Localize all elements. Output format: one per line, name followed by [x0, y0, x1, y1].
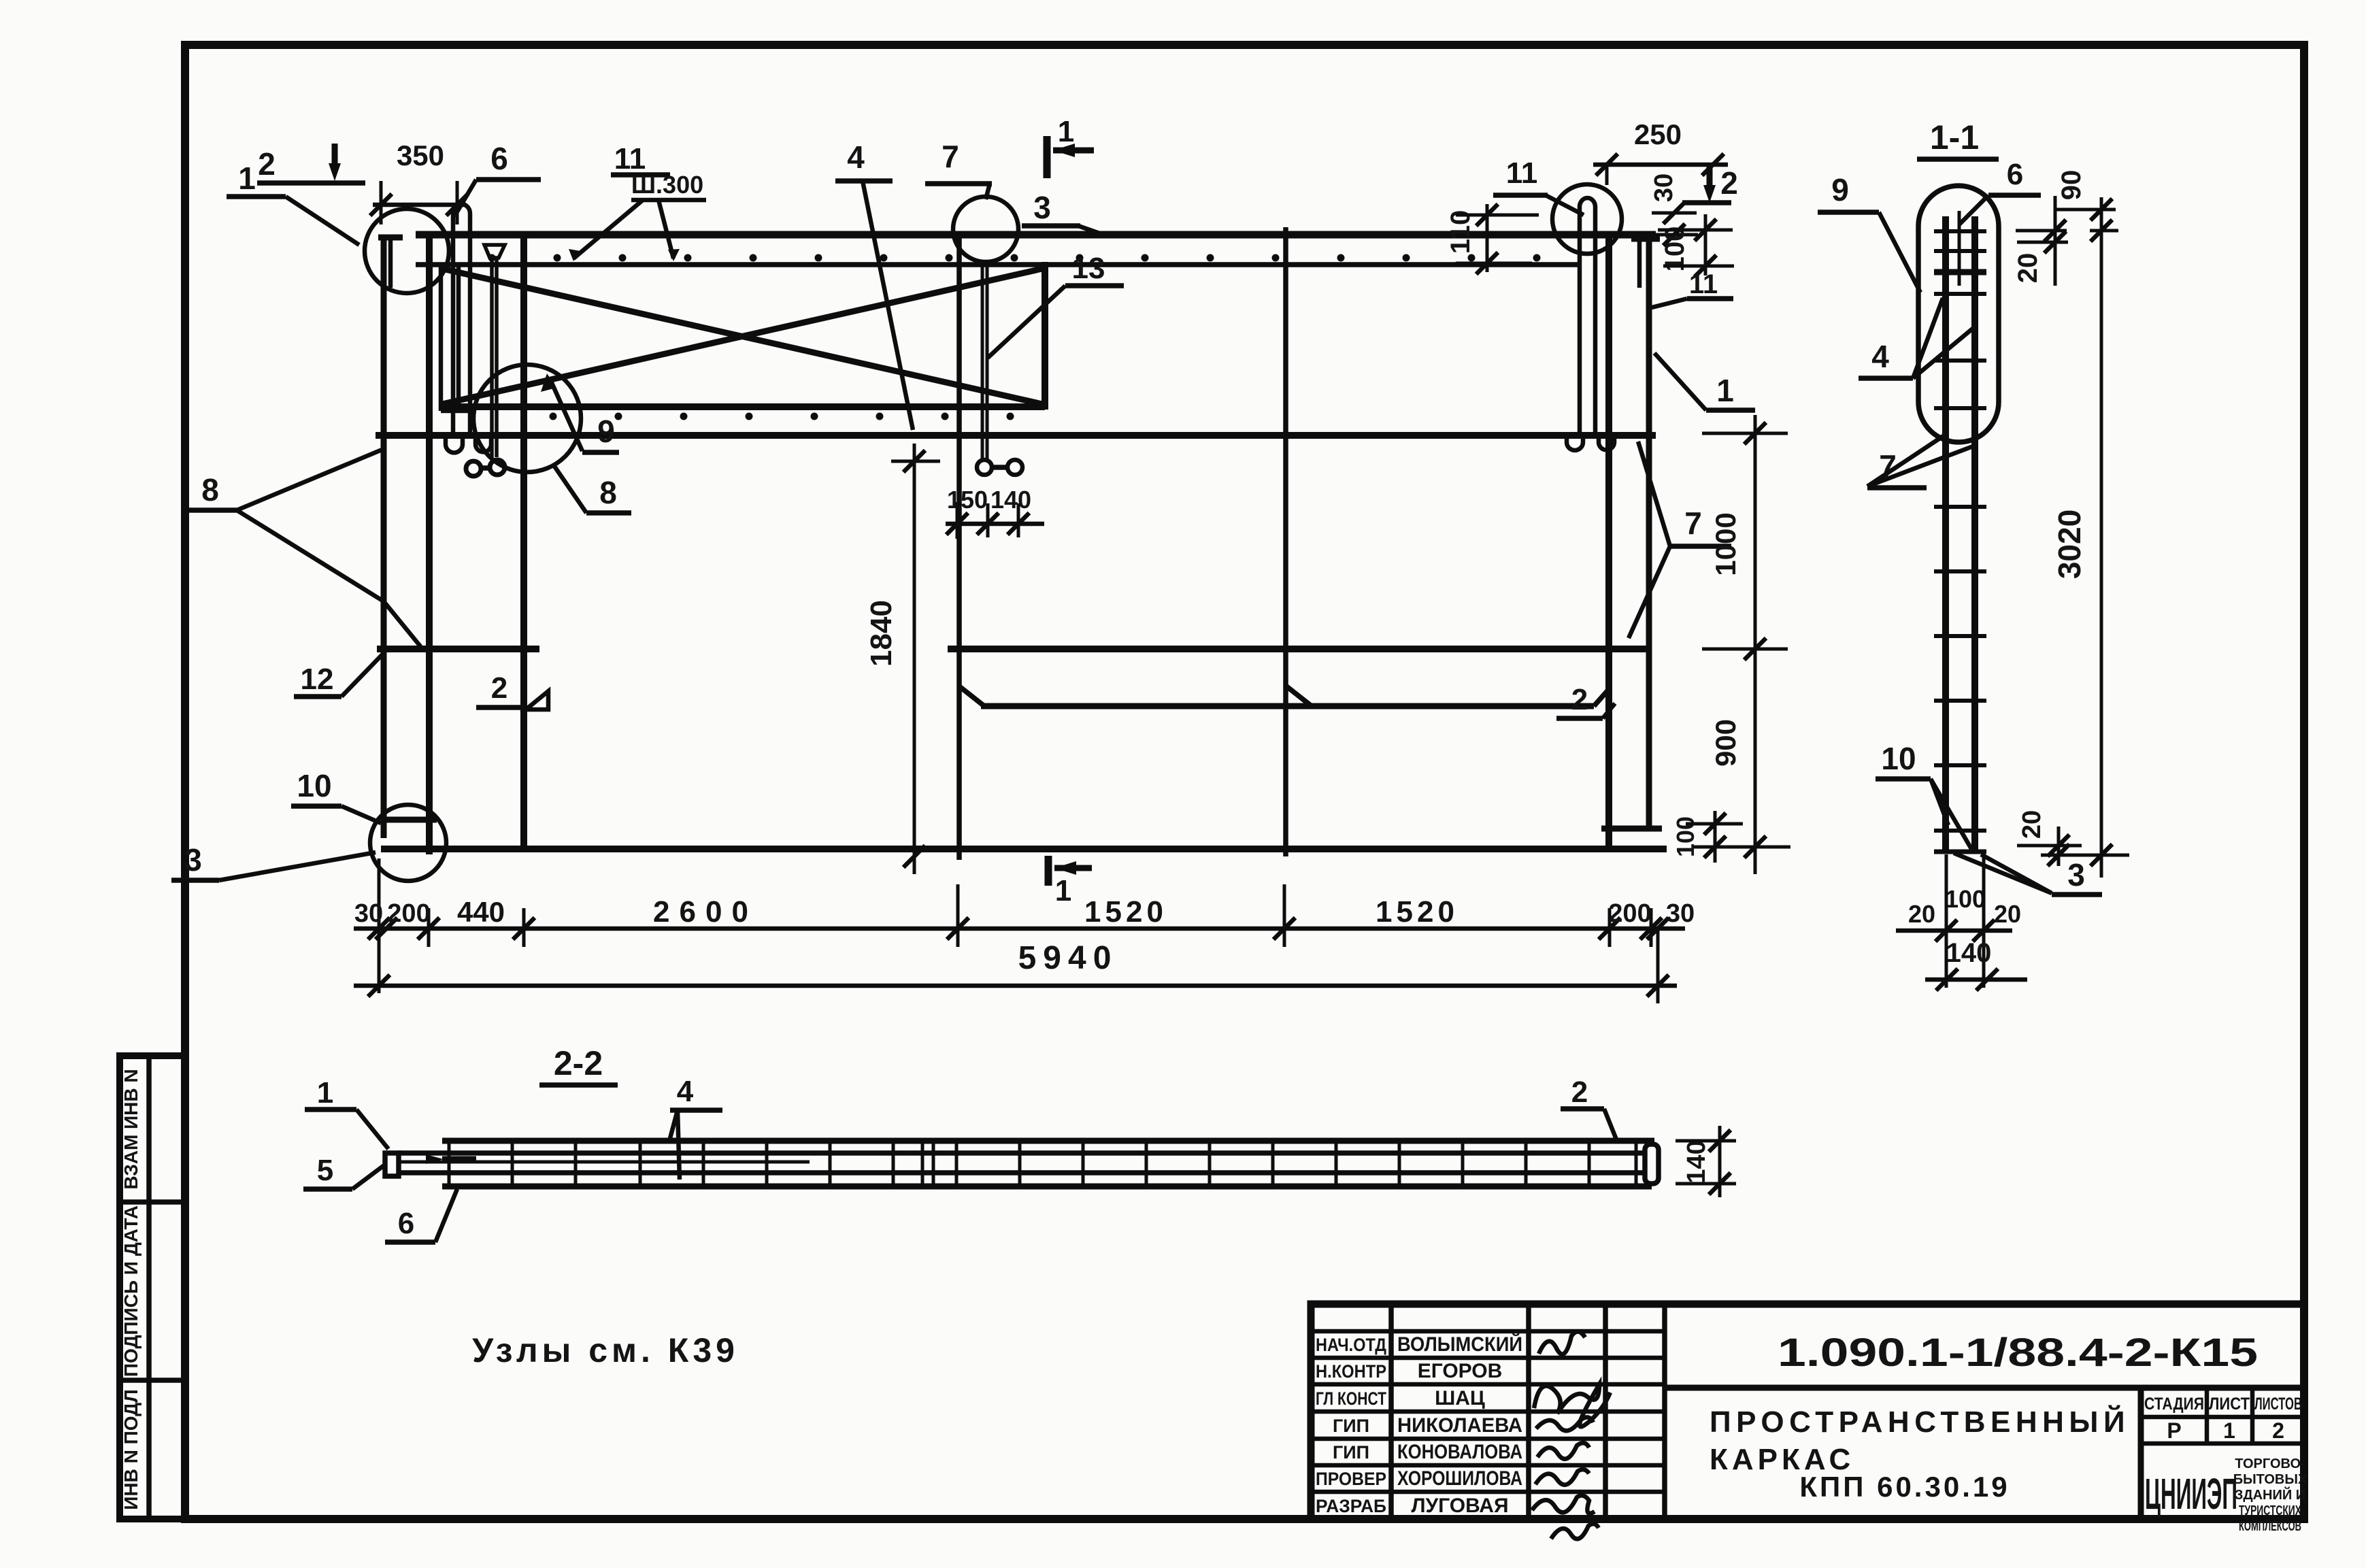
svg-text:1: 1: [317, 1076, 333, 1110]
svg-text:1520: 1520: [1376, 895, 1459, 929]
dimension row 5940: [354, 940, 1677, 997]
section mark 2 (right): [1682, 164, 1738, 203]
svg-text:ГИП: ГИП: [1333, 1416, 1369, 1436]
svg-text:Р: Р: [2167, 1418, 2181, 1443]
svg-text:3: 3: [1033, 190, 1051, 225]
svg-text:7: 7: [1684, 505, 1702, 541]
svg-text:НИКОЛАЕВА: НИКОЛАЕВА: [1397, 1414, 1522, 1437]
dimension row 30/200/440/2600/1520/1520/200/30: [354, 858, 1695, 1003]
label 6 (2-2): [385, 1189, 457, 1242]
svg-text:4: 4: [1871, 339, 1889, 374]
svg-text:ЦНИИЭП: ЦНИИЭП: [2145, 1469, 2237, 1518]
svg-text:90: 90: [2056, 170, 2086, 201]
svg-text:20: 20: [1908, 900, 1935, 928]
svg-text:БЫТОВЫХ: БЫТОВЫХ: [2233, 1472, 2307, 1487]
svg-text:1520: 1520: [1084, 895, 1167, 929]
label 2 (right bar2): [1556, 683, 1615, 718]
signatures: [1532, 1331, 1610, 1539]
dim 250: [1593, 118, 1728, 185]
svg-text:РАЗРАБ: РАЗРАБ: [1316, 1496, 1386, 1516]
svg-text:2600: 2600: [653, 895, 758, 929]
svg-text:3: 3: [2067, 857, 2085, 893]
svg-text:2: 2: [1720, 165, 1738, 201]
label 11 (right): [1493, 156, 1584, 215]
svg-text:ШАЦ: ШАЦ: [1435, 1387, 1485, 1409]
label 12: [294, 652, 385, 697]
label 9 (section): [1818, 172, 1920, 293]
svg-text:4: 4: [847, 139, 865, 175]
label 3 (section): [1954, 853, 2102, 895]
svg-text:1.090.1-1/88.4-2-К15: 1.090.1-1/88.4-2-К15: [1778, 1331, 2258, 1375]
capsule outline 9: [1918, 186, 1999, 442]
left column line 2: [520, 235, 527, 849]
svg-text:ГИП: ГИП: [1333, 1442, 1369, 1463]
label 1 (right post): [1654, 353, 1755, 410]
stage/sheet boxes: [2144, 1395, 2302, 1443]
label 3 (bottom left): [171, 842, 376, 880]
left column line (440 flange): [426, 235, 433, 854]
svg-text:140: 140: [1682, 1140, 1711, 1183]
svg-text:6: 6: [2007, 158, 2023, 191]
stirrup rungs 7/10: [1934, 231, 1986, 852]
svg-text:20: 20: [2013, 253, 2043, 284]
svg-text:ТУРИСТСКИХ: ТУРИСТСКИХ: [2239, 1503, 2301, 1518]
svg-text:4: 4: [677, 1075, 694, 1108]
svg-text:9: 9: [597, 414, 615, 449]
label 3 (top): [1022, 190, 1103, 235]
svg-text:150: 150: [947, 486, 988, 514]
label 7 (right): [1629, 441, 1731, 638]
svg-text:Ш.300: Ш.300: [631, 171, 703, 199]
svg-text:1840: 1840: [865, 600, 898, 667]
svg-text:100: 100: [1945, 885, 1986, 913]
svg-text:КОНОВАЛОВА: КОНОВАЛОВА: [1397, 1441, 1522, 1463]
dim 100 (right): [1658, 214, 1734, 277]
dim 20 (bottom): [2017, 810, 2082, 866]
detail circle node B (9/8): [473, 365, 581, 472]
svg-text:8: 8: [201, 472, 219, 507]
hairpin enclosure plate: [441, 266, 476, 411]
label 8 (left): [189, 449, 423, 650]
dims 20/100/20: [1896, 854, 2021, 988]
label 5 (2-2): [303, 1154, 385, 1189]
hairpin 11 (right loop): [1567, 198, 1614, 450]
dim 140 (2-2): [1676, 1126, 1736, 1197]
dim 140 (section): [1925, 938, 2027, 990]
svg-text:ЗДАНИЙ И: ЗДАНИЙ И: [2235, 1486, 2305, 1503]
svg-text:ХОРОШИЛОВА: ХОРОШИЛОВА: [1397, 1467, 1522, 1490]
rail at mid (full width): [376, 432, 1656, 439]
title block texts: [1316, 1333, 1522, 1517]
label 6 (top): [454, 141, 541, 216]
svg-text:1000: 1000: [1710, 512, 1742, 576]
svg-text:ГЛ КОНСТ: ГЛ КОНСТ: [1316, 1388, 1386, 1409]
svg-text:ИНВ N ПОДЛ: ИНВ N ПОДЛ: [120, 1389, 141, 1509]
svg-text:2: 2: [2272, 1418, 2284, 1443]
right column inner line: [1605, 235, 1612, 849]
svg-text:30: 30: [1650, 173, 1678, 202]
svg-text:10: 10: [1881, 741, 1916, 776]
anchor rod 8 with eyes: [466, 245, 505, 476]
label 4 (2-2): [669, 1075, 722, 1180]
svg-text:КОМПЛЕКСОВ: КОМПЛЕКСОВ: [2239, 1519, 2301, 1534]
svg-text:20: 20: [1994, 900, 2021, 928]
mesh line under top chord: [416, 262, 1578, 267]
section mark 1 (top): [1047, 115, 1094, 178]
dim 150 140: [946, 486, 1044, 539]
svg-text:1: 1: [2223, 1418, 2235, 1443]
svg-text:СТАДИЯ: СТАДИЯ: [2144, 1395, 2204, 1414]
svg-text:5940: 5940: [1018, 940, 1118, 976]
svg-text:13: 13: [1072, 252, 1105, 285]
bar 2 with cranked ends: [959, 686, 1610, 706]
svg-text:250: 250: [1634, 118, 1682, 150]
beam bottom chord: [439, 403, 1045, 410]
svg-text:ТОРГОВО-: ТОРГОВО-: [2235, 1456, 2305, 1471]
svg-text:140: 140: [990, 486, 1031, 514]
label 7 (top mid): [925, 139, 992, 199]
svg-text:3020: 3020: [2052, 510, 2087, 579]
svg-text:ВЗАМ ИНВ N: ВЗАМ ИНВ N: [120, 1069, 141, 1189]
studs on bottom chord: [550, 413, 1014, 420]
svg-text:ВОЛЫМСКИЙ: ВОЛЫМСКИЙ: [1397, 1333, 1522, 1356]
studs on top chord (Ш.300): [488, 254, 1541, 262]
hanger rod 13 with eye bar: [977, 265, 1022, 475]
svg-text:350: 350: [397, 139, 444, 171]
bottom chord line: [381, 846, 1667, 852]
label 4 (top): [835, 139, 913, 430]
svg-text:1: 1: [1055, 874, 1071, 907]
label 8 (mid): [554, 465, 631, 513]
label 7 (section): [1867, 435, 1975, 488]
label 2 (2-2): [1561, 1075, 1618, 1143]
dim 100 (bottom right): [1671, 811, 1743, 863]
middle post 2: [1283, 227, 1288, 856]
svg-text:12: 12: [301, 663, 334, 696]
svg-text:200: 200: [1608, 899, 1651, 928]
svg-text:2: 2: [1571, 683, 1588, 716]
svg-text:11: 11: [1506, 156, 1538, 190]
label 4 (section): [1859, 298, 1973, 378]
label 1 (top left): [227, 161, 359, 245]
detail circle node A (top left): [365, 209, 449, 293]
dim 1000/900: [1694, 415, 1790, 874]
label 9 (mid): [541, 373, 619, 452]
section title 2-2: [539, 1044, 618, 1085]
diagonal brace 4 (down-right): [442, 269, 1042, 404]
svg-text:КПП 60.30.19: КПП 60.30.19: [1799, 1471, 2010, 1503]
svg-text:ЛУГОВАЯ: ЛУГОВАЯ: [1411, 1495, 1508, 1517]
dim 20 (top): [2013, 196, 2068, 286]
svg-text:7: 7: [942, 139, 959, 174]
svg-text:ЛИСТ: ЛИСТ: [2209, 1395, 2250, 1414]
dim 350: [370, 139, 468, 224]
long bar assembly 2-2: [385, 1141, 1659, 1186]
right outer post 1: [1601, 239, 1662, 829]
label 6 (section): [1959, 158, 2041, 224]
detail circle node C (bottom left): [370, 805, 446, 881]
svg-text:30: 30: [354, 899, 383, 928]
svg-text:1: 1: [1058, 115, 1074, 148]
hairpin 6 (long loop): [446, 204, 491, 453]
svg-text:ПРОСТРАНСТВЕННЫЙ: ПРОСТРАНСТВЕННЫЙ: [1710, 1404, 2130, 1439]
svg-text:2: 2: [491, 671, 507, 705]
svg-text:1: 1: [238, 161, 256, 196]
svg-text:1: 1: [1716, 373, 1734, 408]
svg-text:6: 6: [490, 141, 508, 176]
svg-text:30: 30: [1666, 899, 1695, 928]
label 11 with flag Ш.300: [569, 142, 706, 261]
svg-text:20: 20: [2018, 810, 2046, 839]
svg-text:5: 5: [317, 1154, 333, 1187]
dim 3020: [2041, 197, 2129, 878]
svg-text:ПОДПИСЬ И ДАТА: ПОДПИСЬ И ДАТА: [120, 1205, 141, 1377]
doc title: [1710, 1404, 2130, 1503]
label 10 (section): [1876, 741, 1971, 849]
svg-text:ПРОВЕР: ПРОВЕР: [1316, 1469, 1386, 1489]
svg-text:440: 440: [457, 896, 505, 928]
svg-text:8: 8: [599, 475, 617, 510]
dim 1840: [865, 444, 940, 874]
svg-text:6: 6: [398, 1207, 414, 1240]
svg-text:Узлы см. К39: Узлы см. К39: [472, 1331, 739, 1369]
beam right end edge: [1042, 262, 1048, 410]
svg-text:ЛИСТОВ: ЛИСТОВ: [2254, 1395, 2302, 1414]
middle post 1: [956, 235, 962, 860]
svg-text:ЕГОРОВ: ЕГОРОВ: [1418, 1360, 1503, 1382]
dim 110: [1446, 204, 1539, 274]
svg-text:140: 140: [1946, 938, 1992, 968]
label 11 lower right: [1652, 269, 1733, 307]
svg-text:НАЧ.ОТД: НАЧ.ОТД: [1316, 1335, 1386, 1355]
svg-text:200: 200: [387, 899, 430, 928]
bar 3 top chord: [416, 231, 1656, 239]
label 1 (2-2): [305, 1076, 388, 1149]
svg-text:Н.КОНТР: Н.КОНТР: [1316, 1361, 1386, 1382]
rail left segment y954: [377, 646, 539, 652]
label 2 (left bar2 pointer): [476, 671, 548, 710]
dim 30 (right top): [1650, 173, 1698, 246]
svg-text:2-2: 2-2: [554, 1044, 603, 1082]
label 13: [988, 252, 1124, 358]
svg-text:11: 11: [1689, 269, 1718, 299]
title block: [1311, 1304, 2304, 1519]
svg-text:2: 2: [1571, 1075, 1588, 1109]
detail circle node E (top right): [1552, 184, 1622, 254]
svg-text:3: 3: [184, 842, 202, 878]
detail circle node D (7 mid): [953, 197, 1018, 262]
section title 1-1: [1917, 118, 1999, 159]
dim 90: [2056, 170, 2118, 241]
section mark 2 (left): [257, 144, 365, 183]
svg-text:1-1: 1-1: [1930, 118, 1979, 156]
section mark 1 (bottom): [1048, 856, 1092, 907]
rail right segment y954: [948, 646, 1651, 652]
svg-text:2: 2: [258, 146, 276, 182]
diagonal brace 4 (up-right): [442, 269, 1042, 404]
ladder bars 4: [1946, 211, 1975, 852]
left stamp sidebar: [120, 1056, 185, 1519]
svg-text:900: 900: [1710, 719, 1742, 767]
svg-text:9: 9: [1831, 172, 1849, 207]
svg-text:10: 10: [297, 768, 331, 803]
left outer post 1: [378, 237, 437, 838]
label 10 (bottom left): [291, 768, 381, 823]
